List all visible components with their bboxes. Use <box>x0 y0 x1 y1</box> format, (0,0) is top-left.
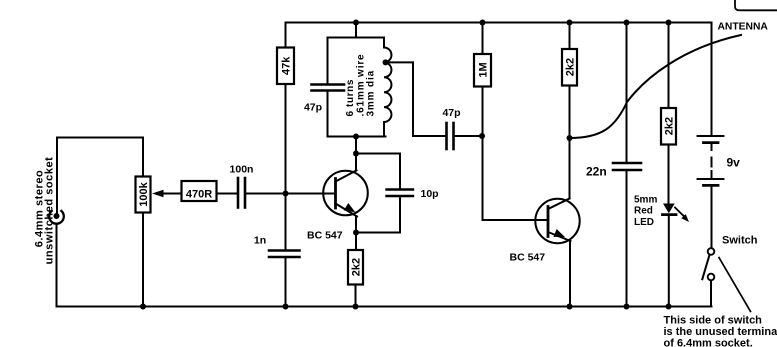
tank loop bottom edge <box>328 136 386 138</box>
wire rail to 47k <box>285 23 287 48</box>
battery BT1 top long plate <box>698 135 724 137</box>
node Q2 emitter ground <box>567 304 573 310</box>
battery BT1 dashed middle <box>711 144 713 150</box>
node LED ground <box>666 304 672 310</box>
svg-text:of 6.4mm socket.: of 6.4mm socket. <box>664 337 753 347</box>
svg-text:This side of switch: This side of switch <box>664 315 763 327</box>
svg-text:2k2: 2k2 <box>663 117 675 135</box>
capacitor 10p plates <box>387 188 414 190</box>
wire rail to battery <box>711 23 713 136</box>
transistor Q1 emitter diagonal <box>336 204 358 217</box>
wire rail to 1M <box>482 23 484 55</box>
svg-text:Switch: Switch <box>722 235 758 247</box>
capacitor 47p tank plates <box>312 83 345 86</box>
resistor 2k2 led body <box>661 108 676 145</box>
node Q1 emitter <box>353 230 359 236</box>
inductor L1 coil bumps <box>384 48 391 123</box>
node 2k2 left rail <box>567 20 573 26</box>
node 2k2 right rail <box>666 20 672 26</box>
wire 22n to ground rail <box>626 171 628 307</box>
node pot ground <box>140 304 146 310</box>
wire socket left upper <box>56 138 58 214</box>
inductor L1 bottom stub <box>383 122 385 137</box>
node coil tap <box>383 59 389 65</box>
transistor Q1 emitter arrowhead <box>344 203 356 212</box>
svg-text:is the unused terminal: is the unused terminal <box>664 326 777 338</box>
wire 1n to ground rail <box>285 258 287 307</box>
LED D1 cathode bar <box>663 213 677 216</box>
node 22n rail <box>624 20 630 26</box>
wire LED to ground rail <box>668 216 670 307</box>
wire Q1 emitter vertical <box>355 217 357 233</box>
node 2k2 ground <box>353 304 359 310</box>
antenna wire curve <box>570 35 742 138</box>
capacitor 1n plates <box>269 249 300 252</box>
resistor 470R body <box>182 181 217 201</box>
capacitor 22n plates <box>613 162 641 165</box>
svg-text:LED: LED <box>634 217 654 228</box>
wire pot top lead <box>142 138 144 177</box>
tank loop top edge <box>328 37 385 39</box>
wire 47k to base node and down to 1n <box>285 84 287 250</box>
wire rail to tank top <box>355 23 357 38</box>
node Q1 collector <box>353 151 359 157</box>
wire socket left lower <box>56 224 58 307</box>
wire 2k2 to LED <box>668 145 670 204</box>
tank loop left lower <box>327 92 329 137</box>
transistor Q2 emitter diagonal <box>548 232 571 241</box>
svg-text:3mm dia: 3mm dia <box>366 70 377 117</box>
transistor Q2 collector diagonal <box>548 199 570 210</box>
capacitor 47p coupling plates <box>445 123 448 149</box>
capacitor 100n plates <box>237 178 240 208</box>
node Q1 base junction <box>283 191 289 197</box>
wire 10p bottom to emitter node <box>356 197 400 233</box>
svg-text:22n: 22n <box>586 165 607 179</box>
wire pot bottom lead <box>142 213 144 307</box>
svg-text:ANTENNA: ANTENNA <box>718 22 769 33</box>
svg-text:1n: 1n <box>254 235 266 247</box>
wire Q2 base horizontal <box>483 219 549 221</box>
LED D1 triangle <box>663 204 675 214</box>
node 47p 1M junction <box>479 133 485 139</box>
svg-text:2k2: 2k2 <box>564 58 576 76</box>
svg-text:Red: Red <box>634 206 653 217</box>
svg-text:47p: 47p <box>304 102 322 114</box>
transistor Q1 collector diagonal <box>336 170 357 181</box>
wire socket loop top <box>57 137 143 139</box>
switch S1 blade <box>702 255 709 279</box>
transistor Q2 emitter arrowhead <box>553 229 565 237</box>
svg-text:5mm: 5mm <box>634 194 657 205</box>
svg-text:470R: 470R <box>186 189 212 201</box>
svg-text:unswitched socket: unswitched socket <box>43 157 55 265</box>
battery BT1 top short plate <box>704 141 719 144</box>
wire 2k2 to ground rail <box>355 285 357 307</box>
wire battery to switch <box>711 187 713 249</box>
resistor 2k2 emitter body <box>348 250 363 285</box>
svg-text:1M: 1M <box>477 62 489 77</box>
wire 2k2 to antenna node and collector <box>569 86 571 199</box>
transistor Q1 base bar <box>334 179 337 209</box>
LED D1 emission arrow <box>675 208 684 217</box>
svg-text:BC 547: BC 547 <box>307 230 343 242</box>
wire 100n to base node <box>247 193 336 195</box>
svg-text:47p: 47p <box>442 107 460 119</box>
resistor 2k2 collector body <box>562 49 577 86</box>
wire switch to ground rail <box>710 281 712 307</box>
svg-text:100k: 100k <box>138 181 150 206</box>
wiper arrow of pot <box>160 193 182 195</box>
switch S1 upper terminal <box>708 248 715 255</box>
label box fragment top right <box>735 0 777 10</box>
wire rail to 2k2 left <box>569 23 571 50</box>
svg-text:BC 547: BC 547 <box>510 252 546 264</box>
wire rail to 22n <box>626 23 628 163</box>
potentiometer VR1 100k body <box>136 177 151 213</box>
wire coil tap right <box>386 61 414 63</box>
node antenna tap <box>567 135 573 141</box>
svg-text:10p: 10p <box>421 188 439 200</box>
socket J1 tip dot <box>54 213 60 219</box>
wire tap to 47p coupling <box>413 135 446 137</box>
node tank top on rail <box>353 20 359 26</box>
resistor 1M body <box>474 54 491 87</box>
tank loop left upper <box>327 38 329 85</box>
transistor Q1 BC547 circle <box>323 171 368 216</box>
wire bottom ground rail <box>57 306 712 308</box>
wire 470R to 100n <box>217 193 237 195</box>
node 22n ground <box>624 304 630 310</box>
switch S1 lower terminal <box>708 274 715 281</box>
node tank bottom <box>353 134 359 140</box>
node 1n ground <box>283 304 289 310</box>
wire rail to 2k2 right <box>668 23 670 109</box>
svg-text:2k2: 2k2 <box>350 258 362 276</box>
inductor L1 top stub <box>383 38 385 48</box>
resistor 47k body <box>277 48 294 85</box>
wire 47p coupling to 1M line <box>455 135 483 137</box>
wire Q2 emitter vertical <box>569 241 571 307</box>
svg-text:47k: 47k <box>280 56 292 75</box>
wire Q1 collector vertical <box>355 154 357 171</box>
wire top supply rail <box>286 22 712 24</box>
battery BT1 bottom short plate <box>704 184 719 187</box>
wire emitter node to 2k2 <box>355 233 357 251</box>
svg-text:9v: 9v <box>727 156 741 170</box>
wire 1M to junction and down <box>482 87 484 221</box>
battery BT1 bottom long plate <box>698 178 724 180</box>
node 1M rail <box>480 20 486 26</box>
svg-text:100n: 100n <box>230 164 254 176</box>
wire collector node to 10p <box>356 154 400 189</box>
socket J1 barrel arc <box>49 211 64 224</box>
transistor Q2 base bar <box>547 207 550 237</box>
wire tap down <box>412 62 414 136</box>
transistor Q2 BC547 circle <box>535 199 579 243</box>
leader line to note text <box>719 258 751 312</box>
wire tank bottom to collector node <box>355 137 357 154</box>
